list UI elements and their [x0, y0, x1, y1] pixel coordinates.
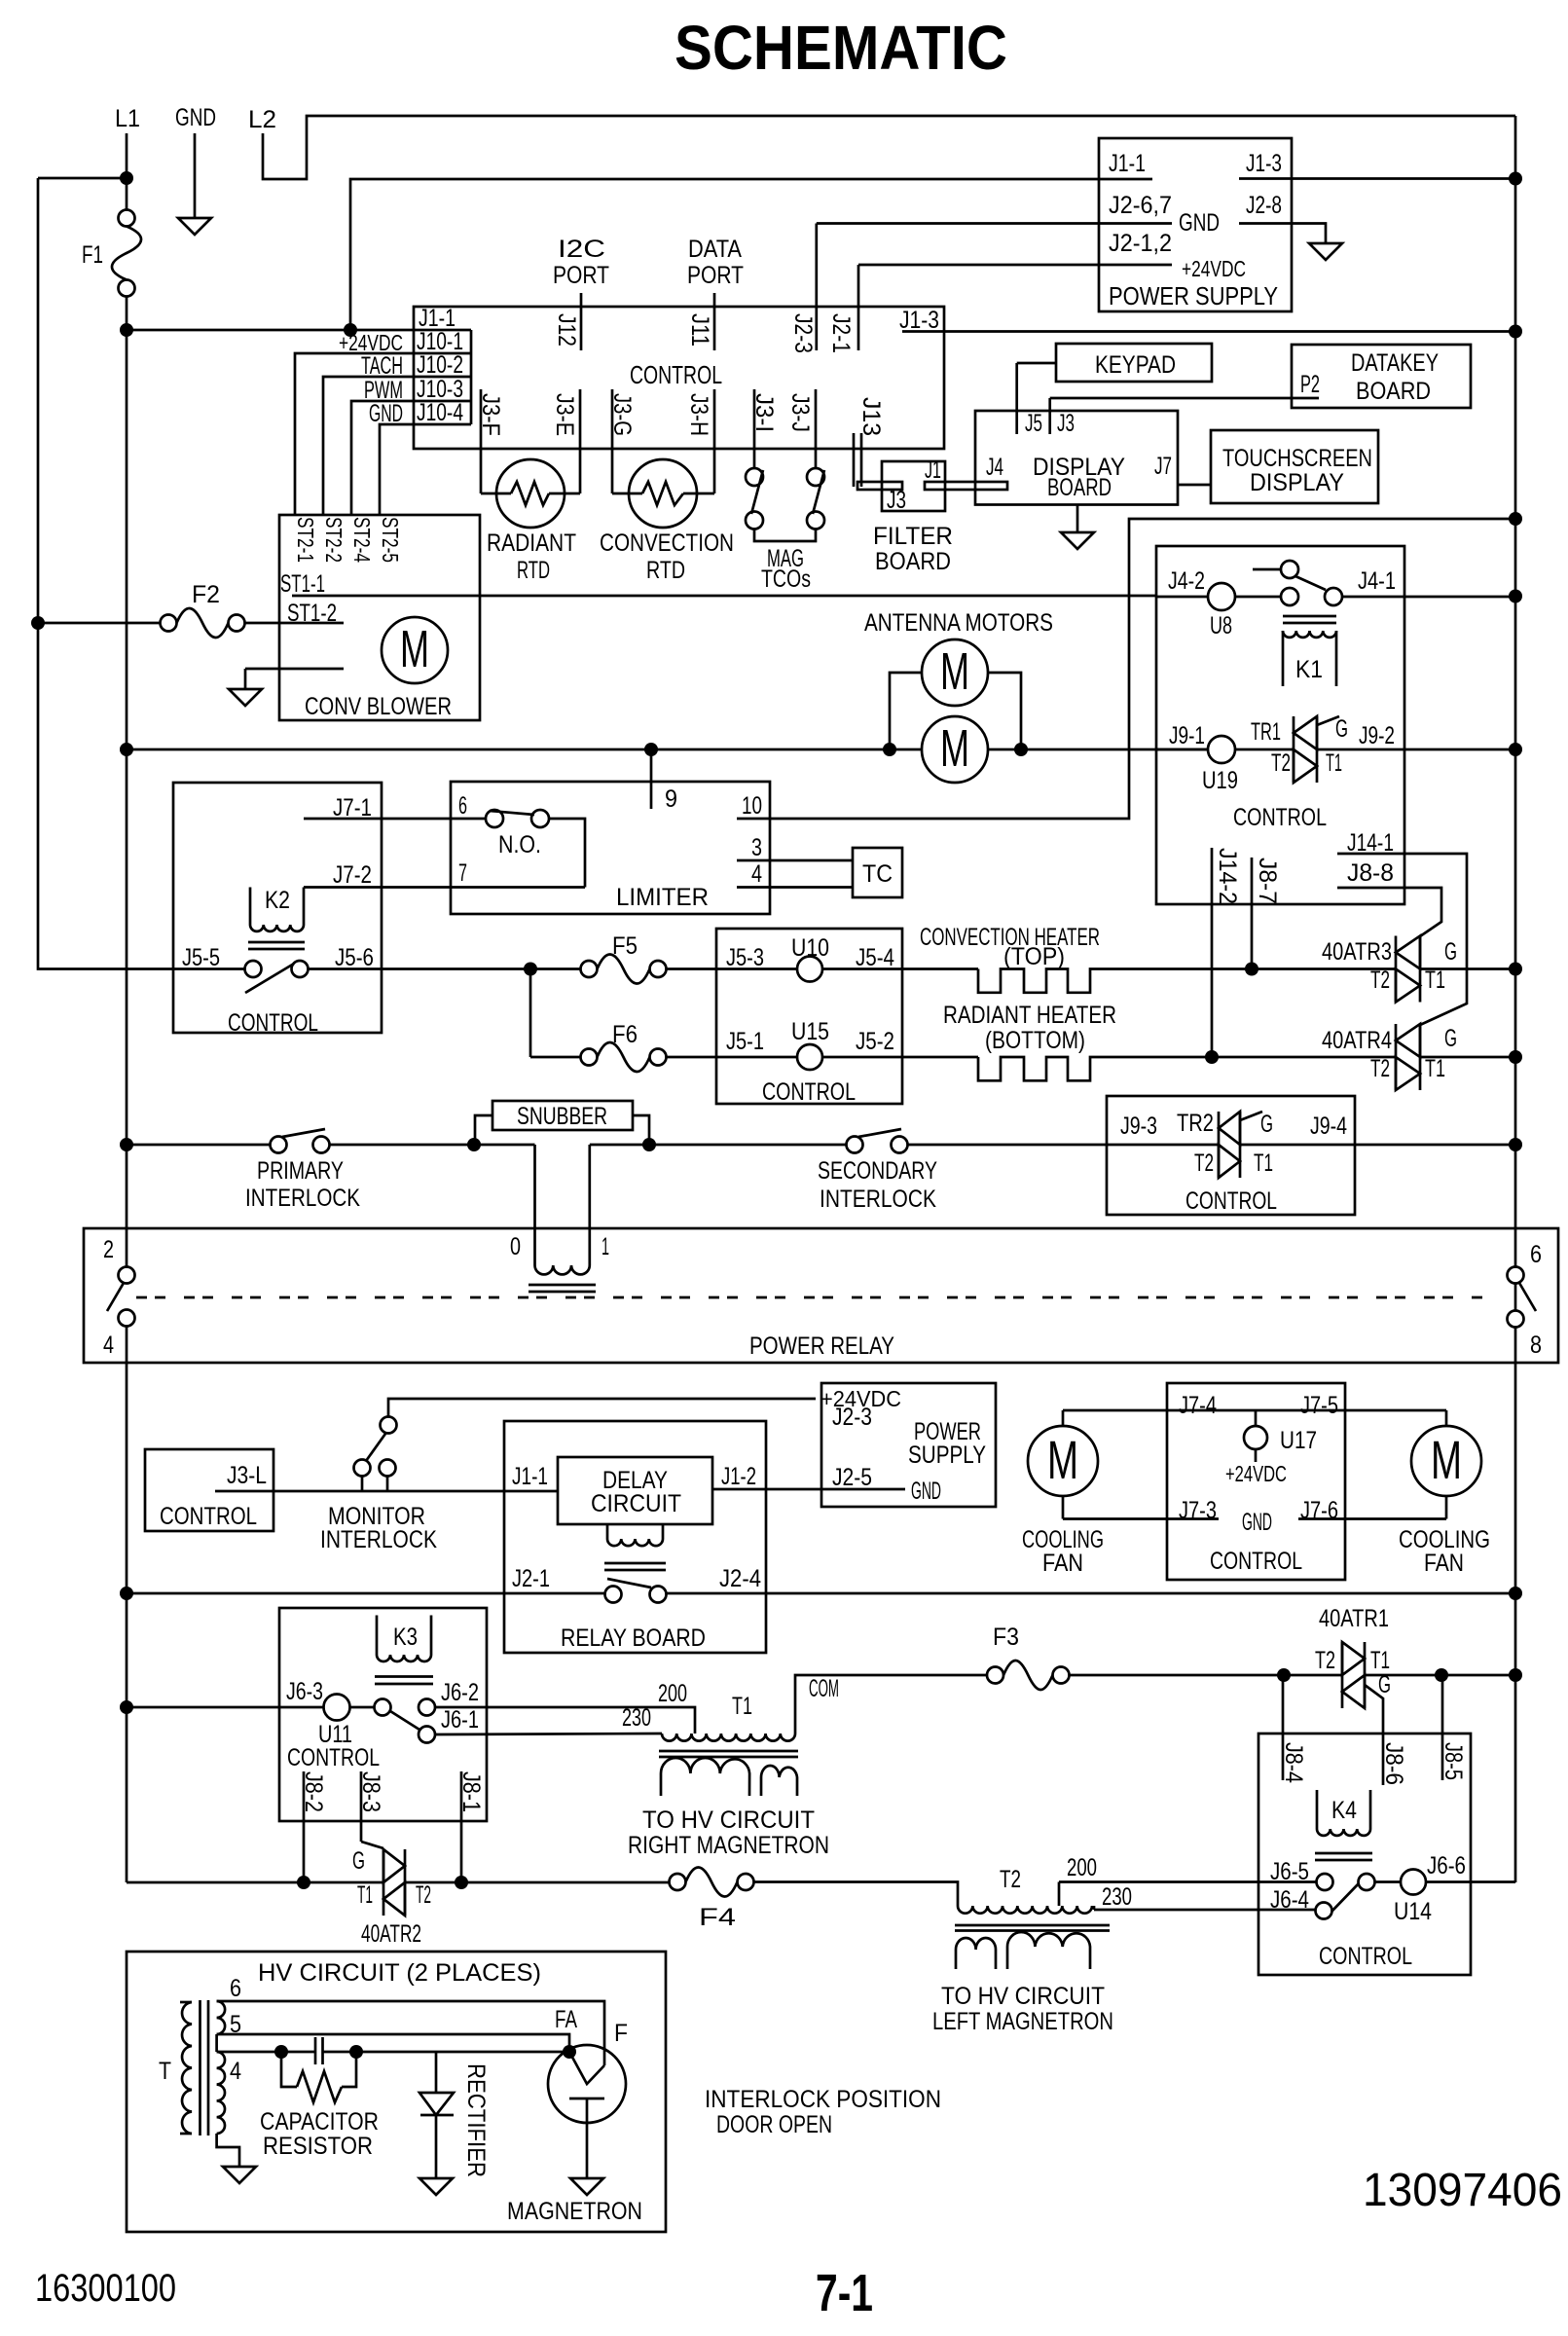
svg-text:CONTROL: CONTROL [287, 1744, 380, 1771]
page number 7-1 [816, 2264, 873, 2322]
node antenna right [1014, 743, 1028, 756]
svg-text:M: M [1047, 1429, 1078, 1490]
label DATAKEY BOARD [1351, 349, 1439, 405]
wire J7-1 [304, 818, 451, 821]
label +24VDC wire [339, 330, 403, 355]
svg-text:T1: T1 [1425, 1055, 1445, 1082]
optocoupler U11 [324, 1695, 350, 1721]
pin label J14-2 [1214, 848, 1241, 904]
label J8-8 [1347, 859, 1394, 887]
label MAGNETRON [507, 2198, 642, 2225]
svg-text:J1-3: J1-3 [1246, 150, 1282, 177]
thermocouple TC box [853, 848, 902, 897]
pin label 5 hv [230, 2011, 241, 2038]
wire antenna M2 right [988, 748, 1209, 751]
label T2 ATR3 [1370, 967, 1390, 994]
label T2 ATR4 [1370, 1055, 1390, 1082]
svg-text:F3: F3 [993, 1624, 1019, 1651]
label J6-4 [1270, 1886, 1309, 1914]
transformer T core [201, 2000, 209, 2135]
svg-text:200: 200 [1067, 1854, 1097, 1881]
svg-text:INTERLOCK: INTERLOCK [320, 1526, 437, 1553]
pin J3-E [579, 389, 582, 493]
label G ATR3 [1444, 938, 1457, 966]
transformer T1 primary [662, 1734, 795, 1741]
svg-text:CONTROL: CONTROL [160, 1503, 257, 1530]
label J6-5 [1270, 1858, 1309, 1885]
svg-text:(TOP): (TOP) [1003, 943, 1065, 970]
pin label J3-E [551, 393, 578, 436]
svg-text:K3: K3 [393, 1624, 418, 1651]
svg-text:TR1: TR1 [1251, 718, 1281, 746]
pin label J3-H [685, 393, 712, 436]
delay circuit box [558, 1457, 712, 1524]
pin J3-I [753, 389, 756, 468]
svg-text:RTD: RTD [517, 557, 550, 584]
pin label J8-3 [357, 1771, 384, 1812]
wire bus3 seg3 [590, 1144, 847, 1147]
label U8 [1210, 612, 1232, 639]
node snubber left [467, 1138, 481, 1151]
wire blower gnd row [245, 669, 344, 689]
wire J4-2 row [1156, 596, 1208, 599]
node right bus4 [1509, 1587, 1522, 1600]
svg-text:SECONDARY: SECONDARY [818, 1157, 937, 1185]
svg-text:BOARD: BOARD [875, 548, 951, 575]
svg-text:K4: K4 [1331, 1797, 1357, 1824]
wire J6-1 230 line [435, 1734, 662, 1734]
svg-text:DATAKEY: DATAKEY [1351, 349, 1439, 377]
svg-text:J8-8: J8-8 [1347, 859, 1394, 887]
svg-text:7-1: 7-1 [816, 2264, 873, 2322]
svg-text:GND: GND [1242, 1509, 1272, 1536]
label U14 [1394, 1898, 1432, 1925]
label J2-1 rb [512, 1565, 550, 1592]
svg-text:6: 6 [458, 792, 467, 820]
svg-text:INTERLOCK: INTERLOCK [820, 1186, 936, 1213]
pin label J3 display [1057, 410, 1075, 437]
label J7-4 [1179, 1392, 1217, 1419]
label TR1 [1251, 718, 1281, 746]
power relay box [84, 1228, 1558, 1363]
node F2 branch [31, 616, 45, 630]
label DATA PORT [687, 236, 744, 289]
label FA hv [555, 2006, 577, 2033]
touchscreen box [1211, 430, 1378, 503]
wire rad heater to triac [1212, 1056, 1396, 1059]
label T2 TR1 [1271, 749, 1291, 777]
motor antenna M2 [922, 716, 988, 783]
label PRIMARY INTERLOCK [245, 1157, 360, 1212]
RTD convection [612, 459, 714, 528]
label CONTROL U10U15 [762, 1078, 856, 1106]
wire keypad to J5 [1017, 362, 1056, 365]
svg-text:40ATR4: 40ATR4 [1322, 1027, 1392, 1054]
wire L1 vertical [126, 296, 128, 1882]
wire F6 left [530, 1056, 581, 1059]
pin label J2-3 [789, 313, 817, 353]
label J7-6 [1300, 1497, 1338, 1524]
wire left fan bottom [1062, 1496, 1065, 1519]
label SNUBBER [517, 1103, 607, 1130]
node right bus J4-1 [1509, 590, 1522, 603]
label N.O. [498, 831, 541, 858]
pin J3 stem [1048, 398, 1051, 434]
terminal L1 label [115, 105, 140, 132]
pin table rows [414, 330, 471, 424]
label J7 [1154, 453, 1172, 480]
gate TR2 [1240, 1112, 1262, 1120]
wire F6 right [667, 1056, 798, 1059]
svg-text:230: 230 [622, 1704, 651, 1732]
svg-text:6: 6 [1530, 1241, 1542, 1268]
wire J7 to touchscreen [1178, 484, 1211, 487]
svg-text:J10-2: J10-2 [417, 351, 463, 379]
svg-text:G: G [1260, 1111, 1273, 1138]
label CONTROL fan [1210, 1548, 1302, 1575]
svg-text:T: T [159, 2058, 171, 2085]
label COOLING FAN right [1399, 1526, 1490, 1577]
power supply box [1099, 138, 1292, 311]
pin label ST2-4 [349, 517, 375, 563]
fuse F2 [161, 608, 245, 638]
node right bus heater1 [1509, 963, 1522, 976]
triac 40ATR3 [1396, 936, 1420, 1003]
label LIMITER [616, 884, 709, 911]
node J8-1 junction [455, 1876, 468, 1889]
wire pin 10 [737, 519, 1515, 819]
wire +24VDC line [388, 1399, 816, 1417]
pin J3-G [611, 389, 614, 493]
transformer T2 primary [958, 1906, 1092, 1914]
svg-text:LIMITER: LIMITER [616, 884, 709, 911]
wire limiter 6 [451, 818, 486, 821]
svg-text:T2: T2 [1315, 1647, 1335, 1674]
ground display board [1061, 505, 1094, 550]
svg-text:6: 6 [230, 1975, 241, 2002]
relay coil power relay [529, 1265, 596, 1292]
node right bus F3 [1509, 1668, 1522, 1682]
label CONTROL TR2 [1185, 1187, 1277, 1215]
display board box [975, 411, 1178, 505]
label U11 [318, 1721, 352, 1748]
label J6-6 [1427, 1852, 1466, 1880]
ground magnetron [570, 2178, 603, 2195]
label J9-4 [1310, 1113, 1347, 1140]
node right bus3 [1509, 1138, 1522, 1151]
switch delay relay [605, 1579, 667, 1603]
label F4 [699, 1904, 736, 1931]
wire snubber left [475, 1115, 492, 1145]
wire pin 4 [737, 886, 853, 889]
wire bus3 seg1 [127, 1144, 271, 1147]
pin J3-F [480, 389, 483, 493]
ground J2-8 [1309, 243, 1342, 260]
label J9-1 [1169, 722, 1205, 749]
pin label 9 [665, 785, 677, 813]
wire ATR4 to bus [1420, 1056, 1515, 1059]
terminal GND label [175, 104, 216, 131]
node antenna left [883, 743, 896, 756]
wire bus5 left [127, 1706, 324, 1709]
pin label J1-3 ctrl [899, 307, 939, 334]
svg-text:U14: U14 [1394, 1898, 1432, 1925]
wire pin 3 [737, 859, 853, 862]
svg-text:J5-3: J5-3 [726, 944, 764, 971]
node L1 mid [120, 323, 133, 337]
optocoupler U15 [797, 1044, 822, 1070]
wire bus2 left [127, 748, 922, 751]
cooling fan control box [1167, 1383, 1345, 1580]
node bus5 L1 [120, 1700, 133, 1714]
label J4-1 [1358, 567, 1396, 595]
label F1 [82, 241, 103, 269]
svg-text:PRIMARY: PRIMARY [257, 1157, 344, 1185]
svg-text:TC: TC [862, 860, 893, 888]
switch power relay left [107, 1267, 135, 1327]
svg-text:J8-1: J8-1 [457, 1771, 485, 1812]
svg-text:J8-2: J8-2 [300, 1771, 327, 1812]
node right bus2 [1509, 743, 1522, 756]
fuse F1 [112, 210, 141, 297]
node cap left [274, 2045, 288, 2059]
svg-text:KEYPAD: KEYPAD [1095, 351, 1176, 379]
label J2-4 rb [719, 1565, 761, 1592]
pin J5 stem [1015, 363, 1018, 434]
ground conv blower [229, 689, 262, 706]
svg-text:4: 4 [103, 1332, 114, 1359]
label RADIANT RTD [487, 529, 576, 584]
label 40ATR1 [1319, 1605, 1389, 1632]
svg-text:T2: T2 [1271, 749, 1291, 777]
pin label J8-6 [1380, 1742, 1407, 1785]
svg-text:+24VDC: +24VDC [1225, 1461, 1287, 1486]
svg-text:J8-4: J8-4 [1280, 1742, 1307, 1783]
optocoupler U19 [1208, 736, 1235, 763]
filter board box [882, 461, 945, 511]
svg-text:J2-4: J2-4 [719, 1565, 761, 1592]
label J2-8 [1246, 192, 1282, 219]
pin label J8-4 [1280, 1742, 1307, 1783]
pin label 4 hv [230, 2058, 241, 2085]
wire U11 to contact [350, 1706, 375, 1709]
svg-text:T1: T1 [1254, 1150, 1273, 1177]
label POWER SUPPLY 2 [908, 1418, 986, 1469]
motor antenna M1 [922, 639, 988, 706]
svg-text:2: 2 [103, 1236, 114, 1263]
svg-text:230: 230 [1102, 1883, 1132, 1911]
svg-text:J3: J3 [1057, 410, 1075, 437]
node filament [563, 2045, 576, 2059]
switch monitor interlock [354, 1417, 397, 1477]
wire right fan drop [1445, 1410, 1448, 1426]
wire GND to ST2-5 [380, 424, 414, 515]
wire F4 to COM [754, 1882, 959, 1907]
node J1-1 branch [344, 323, 357, 337]
svg-text:J4: J4 [986, 454, 1003, 481]
optocoupler U14 [1401, 1870, 1426, 1895]
label J5-2 [856, 1028, 894, 1055]
wire bus2 right [1234, 748, 1515, 751]
svg-text:8: 8 [1530, 1332, 1542, 1359]
fuse F6 [581, 1042, 667, 1072]
triac TR2 [1219, 1112, 1240, 1178]
wire relay coil stem 1 [588, 1145, 591, 1265]
label MAG TCOs [761, 545, 811, 593]
label G TR1 [1335, 715, 1348, 743]
label J5-3 [726, 944, 764, 971]
svg-text:CONTROL: CONTROL [228, 1009, 318, 1037]
svg-text:J7-5: J7-5 [1300, 1392, 1338, 1419]
label 200 T1 [658, 1680, 687, 1707]
wire 200 T2 [1059, 1882, 1317, 1907]
wire L1 to J1-1 row [127, 329, 471, 332]
pin J12 [580, 293, 583, 350]
svg-text:CONVECTION: CONVECTION [600, 529, 734, 557]
label J7-1 [333, 794, 372, 821]
triac 40ATR4 [1396, 1024, 1420, 1090]
label 230 T2 [1102, 1883, 1132, 1911]
node right bus J1-3 [1509, 172, 1522, 186]
label 40ATR4 [1322, 1027, 1392, 1054]
rectifier diode [419, 2052, 454, 2178]
svg-text:ST2-1: ST2-1 [293, 517, 318, 563]
label J9-3 [1120, 1113, 1157, 1140]
svg-text:1: 1 [602, 1233, 609, 1260]
svg-text:U17: U17 [1280, 1427, 1317, 1454]
svg-text:ANTENNA MOTORS: ANTENNA MOTORS [864, 609, 1053, 637]
label F2 [192, 581, 220, 608]
label U15 [791, 1018, 829, 1045]
svg-text:F2: F2 [192, 581, 220, 608]
svg-text:4: 4 [751, 860, 762, 888]
wire J1-3 to right bus [1239, 177, 1515, 180]
label TACH [361, 352, 403, 380]
wire bus3 seg2 [330, 1144, 535, 1147]
wire left bus [38, 178, 244, 969]
svg-text:L1: L1 [115, 105, 140, 132]
heater radiant bottom [978, 1057, 1212, 1080]
wire ATR3 to bus [1420, 967, 1515, 970]
label J2-1,2 [1109, 230, 1172, 257]
wire TCO bottoms [754, 529, 816, 542]
svg-text:J6-4: J6-4 [1270, 1886, 1309, 1914]
svg-text:J3-L: J3-L [227, 1462, 267, 1489]
svg-text:J9-4: J9-4 [1310, 1113, 1347, 1140]
svg-text:COM: COM [809, 1675, 839, 1702]
label TC [862, 860, 893, 888]
svg-text:U15: U15 [791, 1018, 829, 1045]
svg-text:40ATR1: 40ATR1 [1319, 1605, 1389, 1632]
node J8-4 junction [1277, 1668, 1291, 1682]
svg-text:(BOTTOM): (BOTTOM) [985, 1027, 1085, 1054]
label CAPACITOR RESISTOR [260, 2108, 379, 2160]
resistor hv [281, 2052, 356, 2102]
label J1-3 ps [1246, 150, 1282, 177]
label COM T1 [809, 1675, 839, 1702]
dashed actuator line [136, 1296, 1484, 1299]
svg-text:CONV BLOWER: CONV BLOWER [305, 693, 452, 720]
label G ATR4 [1444, 1025, 1457, 1052]
magnetron anode [569, 2099, 604, 2178]
label K1 [1295, 656, 1323, 683]
svg-text:J7: J7 [1154, 453, 1172, 480]
wire hv gnd [217, 2134, 239, 2167]
node J8-2 junction [297, 1876, 310, 1889]
svg-text:TR2: TR2 [1177, 1110, 1214, 1137]
svg-text:T2: T2 [1370, 967, 1390, 994]
switch N.O. contacts [486, 810, 549, 827]
label I2C PORT [553, 236, 609, 289]
drawing number 13097406 [1363, 2165, 1562, 2216]
wire J7-2 [304, 886, 585, 889]
label G ATR2 [352, 1847, 365, 1875]
wire J2-8 [1239, 224, 1326, 244]
pin J8-5 [1441, 1675, 1444, 1780]
label GND fan [1242, 1509, 1272, 1536]
switch K3 contacts [375, 1699, 436, 1743]
label COOLING FAN left [1022, 1526, 1104, 1577]
svg-text:40ATR3: 40ATR3 [1322, 938, 1392, 966]
svg-text:9: 9 [665, 785, 677, 813]
pin label J2-1 [827, 313, 855, 353]
wire fan top row [1063, 1409, 1446, 1412]
gate 40ATR1 [1365, 1685, 1383, 1734]
pin label J10-4 [417, 399, 463, 426]
node snubber right [642, 1138, 656, 1151]
svg-text:J7-4: J7-4 [1179, 1392, 1217, 1419]
pin label J10-3 [417, 376, 463, 403]
wire J9-1 row [1156, 748, 1209, 751]
svg-text:INTERLOCK: INTERLOCK [245, 1185, 360, 1212]
label T2 xfmr [1000, 1866, 1021, 1893]
svg-text:J4-2: J4-2 [1168, 567, 1205, 595]
label RADIANT HEATER [943, 1002, 1116, 1054]
wire P2 to J3 [1050, 397, 1319, 400]
label T1 TR1 [1326, 749, 1342, 777]
label J7-3 [1179, 1497, 1217, 1524]
svg-text:0: 0 [510, 1233, 521, 1260]
label K3 [393, 1624, 418, 1651]
svg-text:RELAY BOARD: RELAY BOARD [561, 1624, 706, 1652]
wire TACH to ST2-2 [323, 377, 414, 515]
svg-text:J3-H: J3-H [685, 393, 712, 436]
label T2 ATR1 [1315, 1647, 1335, 1674]
svg-text:J1-3: J1-3 [899, 307, 939, 334]
ground hv winding [223, 2167, 256, 2183]
heater convection top [978, 969, 1252, 993]
wire bus4 left [127, 1592, 605, 1595]
wire J5-4 out [822, 967, 978, 970]
label POWER SUPPLY [1109, 281, 1278, 310]
label J5-4 [856, 944, 894, 971]
thermal cutout TCO2 [807, 468, 824, 529]
label J3-L [227, 1462, 267, 1489]
label DISPLAY BOARD [1033, 454, 1125, 501]
label TR2 [1177, 1110, 1214, 1137]
wire snubber right [633, 1115, 649, 1145]
ground rectifier [419, 2178, 453, 2195]
svg-text:J4-1: J4-1 [1358, 567, 1396, 595]
capacitor hv [315, 2037, 323, 2064]
label J5-5 [182, 944, 220, 971]
label T1 ATR2 [357, 1881, 373, 1909]
svg-text:3: 3 [751, 834, 762, 861]
transformer T2 secondary [956, 1932, 1090, 1969]
svg-text:J6-1: J6-1 [441, 1706, 479, 1734]
RTD radiant [481, 459, 580, 528]
svg-text:J5-1: J5-1 [726, 1028, 764, 1055]
